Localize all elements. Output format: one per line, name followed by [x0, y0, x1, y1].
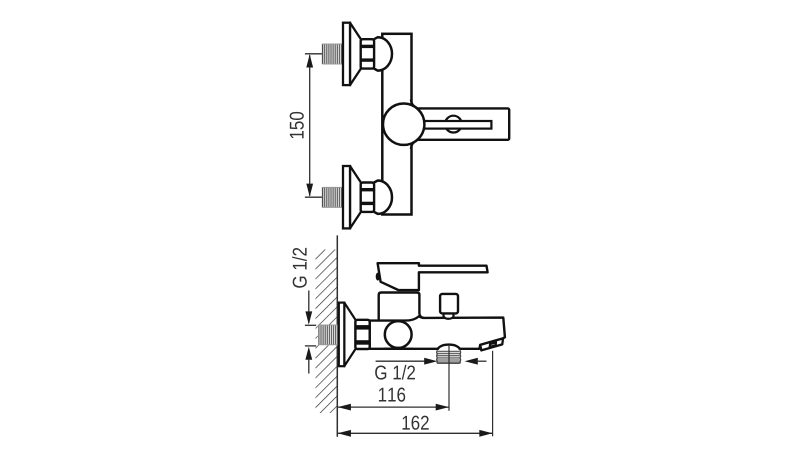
aerator ring [480, 338, 503, 350]
extension line spout end [492, 351, 494, 437]
label 162 [403, 416, 429, 430]
arrowhead 150 down [306, 184, 313, 197]
diverter knob [440, 294, 458, 314]
arrowhead 116 right [436, 404, 449, 411]
label 150 [290, 112, 304, 138]
fillet body-circle top right [411, 99, 418, 108]
shower outlet dome [438, 345, 460, 350]
label 116 [379, 388, 405, 402]
bottom union dome cap [374, 181, 392, 214]
arrowhead 162 left [338, 430, 351, 437]
cartridge dome circle [383, 104, 424, 145]
wall hatching [316, 250, 338, 414]
extension line pipe bottom [305, 345, 316, 347]
fillet body-circle bottom right [411, 140, 418, 149]
dimension 150 extension line top [305, 53, 322, 55]
handle lever bar (front view) [418, 121, 491, 129]
mounting circle (side) [385, 321, 412, 348]
handle indicator cap [376, 273, 380, 281]
arrowhead up [305, 347, 312, 360]
handle pivot circle [445, 116, 462, 133]
arrowhead 150 up [306, 54, 313, 67]
dimension 150 line [309, 55, 311, 196]
side union nut [355, 320, 369, 349]
arrowhead 116 left [338, 404, 351, 411]
G 1/2 horizontal arrow right shaft [477, 360, 487, 362]
handle base plate (front view) [413, 108, 509, 139]
top union nut [361, 39, 374, 68]
arrowhead 162 right [479, 430, 492, 437]
label G 1/2 [375, 365, 415, 380]
arrowhead left-pointing [465, 358, 478, 365]
side escutcheon cone [344, 303, 355, 367]
dimension 150 extension line bottom [305, 196, 322, 198]
aerator mark [490, 342, 496, 347]
dim line 162 [338, 432, 492, 434]
center/extension line of shower outlet [448, 345, 450, 411]
top escutcheon trapezoid cone [350, 23, 361, 85]
diverter knob foot [444, 312, 454, 319]
top inlet thread pipe [322, 44, 343, 64]
cartridge housing (side) [379, 293, 424, 321]
label G 1/2 rotated [292, 248, 307, 288]
wall thread pipe (side) [318, 325, 338, 346]
top escutcheon flange [343, 23, 350, 85]
body bottom edge restroke [384, 348, 414, 350]
side escutcheon flange [339, 303, 345, 367]
extension line pipe top [305, 324, 316, 326]
G 1/2 vertical dim lower arrow shaft [308, 359, 310, 374]
G 1/2 horizontal arrow left shaft [376, 360, 426, 362]
shower outlet thread [437, 350, 461, 363]
wall line [336, 235, 338, 436]
arrowhead down [305, 311, 312, 324]
top union dome cap [374, 37, 392, 70]
handle (side view) [378, 263, 488, 290]
bottom union nut [361, 183, 374, 212]
G 1/2 vertical dim upper arrow shaft [308, 291, 310, 323]
dim line 116 [338, 406, 449, 408]
spout body (side view) [370, 316, 505, 349]
bottom escutcheon flange [343, 166, 350, 228]
bottom escutcheon trapezoid cone [350, 166, 361, 228]
bottom inlet thread pipe [322, 187, 343, 207]
arrowhead right-pointing [424, 358, 437, 365]
faucet body (front view) [382, 34, 411, 215]
